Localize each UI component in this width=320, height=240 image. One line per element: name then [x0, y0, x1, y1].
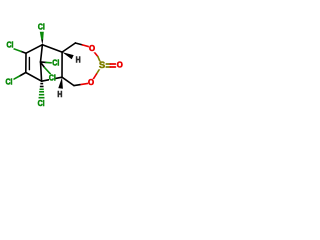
- svg-text:Cl: Cl: [5, 78, 12, 87]
- bond bridge C to Cl_mid1 green half: [46, 61, 51, 63]
- alkene C_top=C_bot double bond main line: [25, 53, 27, 72]
- bond C_bot to Cl_lower_left green half: [13, 76, 19, 79]
- bond bridge C to bh_bot: [41, 62, 42, 81]
- bond CH_bot to CH2_bot: [62, 77, 74, 85]
- bond bh_bot to CH_bot: [42, 77, 62, 81]
- bond bridge C to Cl_mid2 black half: [41, 62, 45, 67]
- label background masks: [5, 24, 123, 108]
- bond O_bot to CH2_bot red half: [80, 83, 89, 84]
- svg-text:H: H: [57, 90, 62, 99]
- alkene double bond inner line: [28, 58, 30, 70]
- bond CH_top to CH_bot ring fusion: [61, 52, 63, 77]
- bond bridge C to Cl_mid1 black half: [41, 61, 47, 64]
- bond CH_top to CH2_top: [62, 43, 75, 52]
- bond CH2_top to O_top red half: [82, 45, 89, 47]
- bond bh_top to CH_top: [42, 45, 62, 52]
- bond S to O_bot red half: [93, 74, 96, 79]
- wedge bond CH_bot to H_bottom: [58, 77, 63, 89]
- svg-text:Cl: Cl: [38, 23, 45, 32]
- S=O double bond lower line olive half: [105, 66, 110, 68]
- bond O_top to S olive half: [98, 57, 100, 62]
- bond S to O_bot olive half: [97, 69, 100, 74]
- bond C_bot to Cl_lower_left black half: [20, 73, 26, 77]
- wedge bond bh_top to Cl_top black tip: [41, 40, 43, 45]
- svg-text:Cl: Cl: [49, 73, 56, 82]
- S=O double bond upper line olive half: [105, 63, 110, 65]
- bond bridge C to Cl_mid2 green half: [45, 68, 51, 74]
- svg-text:O: O: [89, 44, 95, 53]
- bond bh_top to C_top: [26, 45, 42, 54]
- wedge bond CH_top to H_right: [62, 52, 74, 59]
- wedge bond bh_top to Cl_top green part: [40, 32, 44, 40]
- S=O double bond lower line red half: [110, 66, 115, 68]
- bond O_bot to CH2_bot black half: [74, 84, 80, 87]
- svg-text:S: S: [99, 60, 105, 70]
- S=O double bond upper line red half: [110, 63, 115, 65]
- bond C_top to Cl_upper_left green half: [14, 49, 21, 52]
- svg-text:O: O: [117, 61, 123, 70]
- svg-text:H: H: [76, 56, 81, 65]
- bond CH2_top to O_top black half: [75, 43, 82, 45]
- hashed wedge bond bh_bot to Cl_bottom: [39, 84, 45, 98]
- svg-text:Cl: Cl: [38, 99, 45, 108]
- bond C_top to Cl_upper_left black half: [21, 51, 26, 53]
- bond C_bot to bh_bot: [26, 73, 42, 82]
- svg-text:Cl: Cl: [52, 59, 59, 68]
- bond O_top to S red half: [94, 52, 98, 57]
- bond bh_top to bridge C: [41, 45, 43, 62]
- svg-text:O: O: [88, 78, 94, 87]
- svg-text:Cl: Cl: [6, 41, 13, 50]
